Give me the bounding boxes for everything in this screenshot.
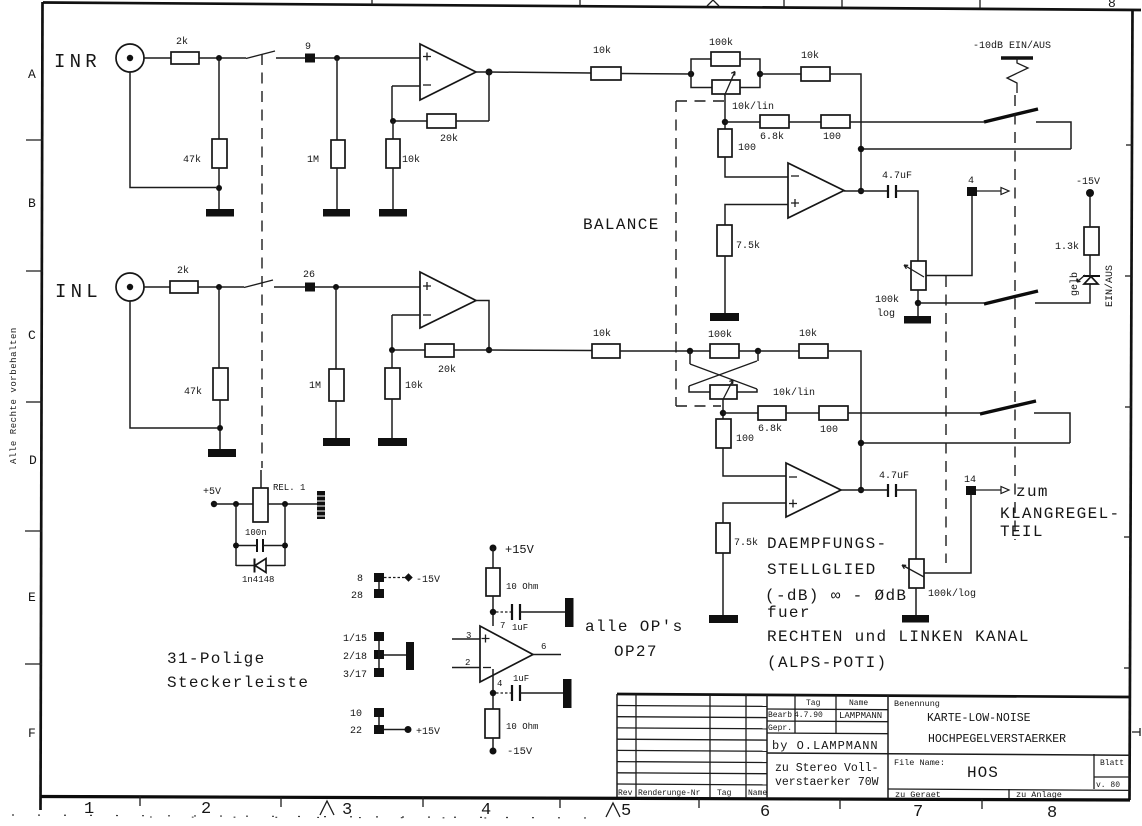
wire mute contact to LED	[1035, 284, 1090, 303]
svg-text:100k: 100k	[708, 329, 732, 341]
label Blatt	[1100, 759, 1124, 768]
resistor 2k (INR)	[171, 52, 199, 64]
resistor 2k (INL)	[170, 281, 198, 293]
svg-text:6.8k: 6.8k	[760, 131, 784, 143]
switch blade (INL input)	[244, 280, 273, 288]
ground (U3 10k)	[378, 438, 407, 446]
svg-text:20k: 20k	[440, 133, 458, 145]
wire pot right bracket	[737, 389, 757, 392]
Blatt box divider	[1094, 776, 1130, 778]
value label 47k	[183, 154, 201, 166]
label +15V (OP27 supply)	[505, 543, 535, 557]
bottom margin caret 5	[606, 803, 620, 817]
svg-text:10k/lin: 10k/lin	[773, 387, 815, 399]
wiper arrow (R volume)	[904, 265, 924, 277]
value label 20k	[440, 133, 458, 145]
svg-text:8: 8	[1047, 804, 1057, 823]
title block outer top line	[617, 694, 1130, 697]
value label 2k	[176, 36, 188, 48]
svg-text:+15V: +15V	[416, 727, 440, 738]
svg-text:6: 6	[541, 642, 546, 652]
bottom margin tick x423	[422, 797, 424, 807]
wire pin 10-22 link	[378, 717, 380, 725]
value label 10k	[405, 380, 423, 392]
wire +15V to 10 Ohm	[492, 548, 494, 568]
wire 10k to bus corner	[828, 351, 861, 490]
resistor 20k (U3 feedback)	[425, 344, 454, 357]
bottom margin number 1	[84, 800, 94, 819]
label File Name:	[894, 758, 945, 768]
wire junction down to 47k	[218, 58, 220, 139]
op-amp U3 (INL input stage)	[420, 272, 476, 328]
bottom margin tick x982	[981, 799, 983, 809]
terminal -15V (OP27)	[490, 748, 497, 755]
wire mute row (R)	[918, 302, 984, 304]
bottom margin tick x140	[139, 796, 141, 806]
title block vertical x636	[635, 695, 637, 798]
svg-text:3: 3	[466, 631, 471, 641]
wire 10k to balance network	[621, 73, 691, 76]
left margin copyright text (rotated)	[9, 327, 19, 464]
project line zu Stereo Voll-	[775, 762, 879, 775]
pin label 4	[968, 176, 974, 187]
file name HOS	[967, 764, 999, 782]
svg-text:100: 100	[820, 425, 838, 436]
left margin row tick A/B	[26, 139, 43, 141]
wire pin 8 to -15V	[384, 577, 405, 579]
switch actuator bar	[1001, 56, 1033, 59]
wire 2k to switch	[199, 57, 246, 59]
title block vertical x767 (revision/middle divider)	[766, 695, 768, 798]
middle header Tag	[806, 699, 821, 708]
wire noninverting input to 7.5k	[723, 503, 786, 523]
revision table header Renderunge-Nr	[638, 789, 701, 798]
label +15V	[416, 727, 440, 738]
wire 10 Ohm to pin 7	[492, 596, 494, 626]
label -10dB EIN/AUS	[973, 40, 1051, 52]
middle header row line y709	[767, 708, 888, 711]
wire snubber right vertical	[284, 504, 286, 566]
pin label 8	[357, 574, 363, 585]
resistor 100 (wiper shunt R)	[718, 129, 732, 157]
wire jack to 2k	[144, 57, 171, 59]
node junction feedback/10k	[389, 347, 395, 353]
node junction bus/cap	[858, 188, 864, 194]
value label 47k	[184, 386, 202, 398]
switch blade (L channel mute)	[980, 401, 1036, 414]
bottom margin caret 3	[320, 801, 334, 815]
wire jack shield return	[130, 301, 217, 428]
resistor 6.8k (L channel)	[758, 406, 786, 420]
svg-text:1uF: 1uF	[513, 674, 529, 684]
wire pads 1/15-3/17 link	[378, 641, 380, 668]
svg-text:Gepr.: Gepr.	[768, 724, 792, 733]
right section label Benennung	[894, 699, 940, 709]
value label 100	[736, 434, 754, 445]
label STELLGLIED	[767, 561, 877, 579]
value label 1M	[307, 155, 319, 166]
wire 6.8k to 100	[789, 121, 821, 123]
pin label 28	[351, 591, 363, 602]
value label 10k/lin	[773, 387, 815, 399]
pin label 9	[305, 42, 311, 53]
value label log	[877, 308, 895, 320]
capacitor 100n	[236, 539, 285, 552]
svg-text:10k: 10k	[405, 380, 423, 392]
wire cap to volume pot	[896, 490, 916, 559]
bottom strip divider x1009	[1008, 789, 1010, 799]
pin label 14	[964, 475, 976, 486]
value label 7.5k	[734, 537, 758, 549]
svg-text:F: F	[28, 726, 36, 741]
left margin row tick B/C	[26, 270, 43, 272]
wire 1M to ground	[335, 401, 337, 438]
pin pad 28	[374, 589, 384, 598]
pin pad 9	[305, 54, 315, 63]
resistor 100 (L channel series)	[819, 406, 848, 420]
svg-text:2: 2	[465, 658, 470, 668]
middle cell Gepr.	[768, 724, 792, 733]
op-amp U5 (OP27 pinout detail)	[480, 626, 533, 682]
svg-text:10k: 10k	[402, 154, 420, 166]
switch blade (INR input)	[246, 51, 275, 59]
wire wiper row to node 14	[924, 495, 971, 573]
pin label 1/15	[343, 633, 367, 645]
value label 100	[820, 425, 838, 436]
svg-text:E: E	[28, 590, 36, 605]
svg-text:Renderunge-Nr: Renderunge-Nr	[638, 789, 701, 798]
resistor 10k (series, L channel)	[592, 344, 620, 358]
node junction pin 7	[490, 609, 496, 615]
svg-text:-15V: -15V	[416, 575, 440, 586]
svg-text:100: 100	[823, 132, 841, 143]
wire switch contact to loop	[1036, 122, 1071, 149]
terminal +15V (pin 22)	[405, 726, 412, 733]
frame bottom border	[41, 797, 1130, 801]
label +15V	[1076, 177, 1100, 188]
balance gang chain line (bottom)	[676, 405, 721, 407]
svg-text:OP27: OP27	[614, 643, 658, 661]
svg-text:STELLGLIED: STELLGLIED	[767, 561, 877, 579]
wire 7.5k to ground	[724, 256, 726, 313]
resistor 10k (U1 gain set)	[386, 139, 400, 168]
common bar (analog ground)	[406, 642, 414, 670]
wire pin 4 down	[492, 669, 494, 713]
label REL. 1	[273, 483, 305, 493]
wire 100k to right node	[739, 350, 758, 352]
pin label 2/18	[343, 651, 367, 663]
resistor 10k (U3 gain set)	[385, 368, 400, 399]
resistor 100 (wiper shunt L)	[716, 419, 731, 448]
bottom margin number 6	[760, 803, 770, 822]
op-amp U1 (INR input stage)	[420, 44, 476, 100]
top margin tick x980	[979, 0, 981, 8]
terminal -15V (pin 8)	[404, 573, 412, 581]
svg-text:INL: INL	[55, 281, 102, 303]
capacitor 1uF (V- bypass)	[496, 685, 564, 701]
svg-text:9: 9	[305, 42, 311, 53]
ground bar (V+ bypass)	[565, 598, 574, 627]
pin label 6	[541, 642, 546, 652]
svg-text:1uF: 1uF	[512, 623, 528, 633]
svg-text:10k: 10k	[593, 328, 611, 340]
resistor 10k (L channel output)	[799, 344, 828, 358]
svg-text:10k: 10k	[593, 45, 611, 57]
wire 20k to feedback node	[392, 120, 427, 122]
label +5V	[203, 487, 221, 498]
value label 7.5k	[736, 240, 760, 252]
svg-text:4: 4	[968, 176, 974, 187]
value label 100n	[245, 528, 267, 538]
wire jack to 2k	[144, 286, 170, 288]
svg-text:KLANGREGEL-: KLANGREGEL-	[1000, 505, 1120, 523]
left margin letter B	[28, 196, 36, 211]
left margin row tick E/F	[25, 663, 42, 665]
wire switch contact to loop	[1034, 413, 1070, 443]
value label 100	[738, 143, 756, 154]
node junction 47k/return	[216, 185, 222, 191]
middle vertical x795	[794, 695, 796, 733]
left margin row tick C/D	[26, 401, 42, 403]
middle header row line y721	[767, 720, 888, 723]
pin pad 14	[966, 486, 976, 495]
resistor 47k (INL)	[213, 368, 228, 400]
svg-text:6: 6	[760, 803, 770, 822]
pin label 22	[350, 726, 362, 737]
svg-text:100k: 100k	[709, 37, 733, 49]
value label 1uF	[513, 674, 529, 684]
potentiometer 10k/lin (balance R)	[712, 80, 740, 94]
value label 100	[823, 132, 841, 143]
resistor 100k (balance L)	[710, 344, 739, 358]
bottom margin number 2	[201, 800, 211, 819]
svg-text:1/15: 1/15	[343, 633, 367, 645]
bottom margin tick x560	[559, 798, 561, 808]
svg-text:4.7uF: 4.7uF	[882, 171, 912, 182]
value label 1uF	[512, 623, 528, 633]
wire 10k to ground	[391, 399, 393, 438]
svg-text:D: D	[29, 453, 37, 468]
svg-text:RECHTEN und LINKEN KANAL: RECHTEN und LINKEN KANAL	[767, 628, 1030, 646]
right section title HOCHPEGELVERSTAERKER	[928, 733, 1066, 746]
wire 1M to ground	[336, 168, 338, 209]
wire pin 6 output	[533, 654, 561, 656]
wire inverting input U1	[392, 85, 420, 87]
svg-text:INR: INR	[54, 51, 101, 73]
wire wiper down to tap	[722, 399, 724, 419]
wire 100 to mute switch row	[848, 412, 980, 414]
label (ALPS-POTI)	[767, 654, 887, 672]
svg-text:26: 26	[303, 270, 315, 281]
value label 6.8k	[758, 423, 782, 435]
frame top border	[43, 3, 1141, 11]
wire U1 output down to 20k	[476, 72, 489, 121]
svg-text:Rev: Rev	[618, 789, 633, 798]
svg-text:10k: 10k	[801, 50, 819, 62]
svg-text:1n4148: 1n4148	[242, 575, 274, 585]
resistor 10k (R channel output)	[801, 67, 830, 81]
title block left edge	[616, 694, 618, 797]
wire pin 2 input	[452, 667, 480, 669]
wire wiper down	[724, 95, 726, 129]
svg-text:7.5k: 7.5k	[734, 537, 758, 549]
value label 1n4148	[242, 575, 274, 585]
connector INL (RCA jack)	[116, 273, 144, 301]
bottom margin tick x840	[839, 799, 841, 809]
right margin row tick C/D	[1125, 406, 1132, 408]
svg-text:HOCHPEGELVERSTAERKER: HOCHPEGELVERSTAERKER	[928, 733, 1066, 746]
label zu Anlage	[1016, 790, 1062, 800]
svg-text:28: 28	[351, 591, 363, 602]
label zum	[1016, 483, 1049, 501]
wire coil to contact block	[268, 503, 318, 505]
left margin letter C	[28, 328, 36, 343]
node junction U1 output	[486, 69, 493, 76]
svg-text:-15V: -15V	[507, 746, 533, 758]
label EIN/AUS (rotated)	[1104, 265, 1116, 307]
left margin letter E	[28, 590, 36, 605]
resistor 10 Ohm (V- filter)	[485, 709, 500, 738]
svg-text:v. 80: v. 80	[1096, 781, 1120, 790]
node junction balance left (L)	[687, 348, 693, 354]
value label 100k	[708, 329, 732, 341]
wire 100 to inverting input	[725, 157, 788, 177]
scan noise trail below bottom margin	[12, 815, 600, 818]
pin pad 22	[374, 725, 384, 734]
resistor 1.3k	[1084, 227, 1099, 255]
author line by O.LAMPMANN	[772, 739, 879, 753]
svg-text:gelb: gelb	[1069, 272, 1081, 296]
wire cross-couple right drop	[757, 351, 759, 361]
svg-text:10 Ohm: 10 Ohm	[506, 582, 538, 592]
svg-text:KARTE-LOW-NOISE: KARTE-LOW-NOISE	[927, 712, 1031, 725]
op-amp U2 (R channel balance stage)	[788, 163, 844, 218]
resistor 1M (INL)	[329, 369, 344, 401]
middle header Name	[849, 699, 868, 708]
wire snubber left vertical	[235, 504, 237, 566]
resistor 10 Ohm (V+ filter)	[486, 568, 500, 596]
wire wiper row to node 4	[926, 196, 972, 276]
svg-text:DAEMPFUNGS-: DAEMPFUNGS-	[767, 535, 887, 553]
svg-text:by O.LAMPMANN: by O.LAMPMANN	[772, 739, 879, 753]
svg-text:100k: 100k	[875, 294, 899, 306]
pin label 26	[303, 270, 315, 281]
pin pad 10	[374, 708, 384, 717]
wire balance right bracket	[740, 59, 760, 88]
right section title KARTE-LOW-NOISE	[927, 712, 1031, 725]
label KLANGREGEL-	[1000, 505, 1120, 523]
svg-text:100k/log: 100k/log	[928, 588, 976, 600]
svg-text:6.8k: 6.8k	[758, 423, 782, 435]
wire switch contact to pin 26	[274, 286, 305, 288]
label INL	[55, 281, 102, 303]
label fuer	[767, 604, 811, 622]
node junction pin 4	[490, 690, 496, 696]
bottom margin number 7	[913, 803, 923, 822]
svg-text:22: 22	[350, 726, 362, 737]
capacitor 1uF (V+ bypass)	[496, 604, 565, 620]
top margin caret	[707, 0, 719, 6]
node junction balance right	[757, 71, 763, 77]
wire junction down to 47k	[218, 287, 220, 368]
diode 1n4148	[236, 559, 285, 573]
ground (U1 10k)	[379, 209, 407, 217]
svg-text:EIN/AUS: EIN/AUS	[1104, 265, 1116, 307]
right margin row tick E/F	[1124, 667, 1131, 669]
node junction loop/bus	[858, 440, 864, 446]
wire noninverting input to 7.5k	[725, 205, 788, 226]
LED gelb (EIN/AUS indicator)	[1077, 275, 1100, 284]
node junction pot/mute	[915, 300, 921, 306]
node junction balance right (L)	[755, 348, 761, 354]
wire +15V to 1.3k	[1089, 193, 1091, 227]
bottom margin tick x699	[698, 798, 700, 808]
svg-text:1: 1	[84, 800, 94, 819]
Blatt box vertical	[1093, 754, 1095, 789]
wire U3 output down	[476, 301, 489, 351]
resistor 1M (INR)	[331, 140, 345, 168]
value label 100k	[709, 37, 733, 49]
svg-text:Blatt: Blatt	[1100, 759, 1124, 768]
balance gang chain line (vertical)	[675, 101, 677, 406]
svg-text:31-Polige: 31-Polige	[167, 650, 266, 668]
wire balance right to output 10k	[760, 73, 801, 75]
svg-text:8: 8	[1108, 0, 1116, 11]
middle header row line y733	[767, 732, 888, 735]
value label 10k	[801, 50, 819, 62]
node junction snubber right	[282, 501, 288, 507]
ground (INR 47k)	[206, 209, 234, 217]
svg-text:fuer: fuer	[767, 604, 811, 622]
wire 100 to mute switch row	[850, 121, 984, 123]
wire U1 output to series 10k	[489, 72, 591, 73]
wire 47k to ground	[218, 168, 220, 209]
svg-text:Name: Name	[849, 699, 868, 708]
project line verstaerker 70W	[775, 776, 879, 789]
switch actuator spring	[1007, 58, 1028, 93]
svg-text:3/17: 3/17	[343, 669, 367, 681]
wire 10k to ground	[392, 168, 394, 209]
node junction U3 output	[486, 347, 492, 353]
ground (INL 1M)	[323, 438, 350, 446]
svg-text:HOS: HOS	[967, 764, 999, 782]
op-amp U4 (L channel balance stage)	[786, 463, 841, 517]
svg-text:Tag: Tag	[717, 789, 732, 798]
svg-text:B: B	[28, 196, 36, 211]
left margin row tick D/E	[25, 530, 42, 532]
value label 10k	[799, 328, 817, 340]
wire 7.5k to ground	[722, 553, 724, 615]
top margin tick x372	[371, 0, 373, 5]
svg-text:47k: 47k	[183, 154, 201, 166]
revision table header Tag	[717, 789, 732, 798]
wire feedback node to 10k	[392, 121, 394, 139]
wire 100 to inverting input	[723, 448, 786, 476]
value label 10 Ohm	[506, 582, 538, 592]
node junction at 47k tap (INR)	[216, 55, 222, 61]
svg-text:alle OP's: alle OP's	[585, 618, 684, 636]
resistor 7.5k (L channel)	[716, 523, 730, 553]
svg-text:7: 7	[913, 803, 923, 822]
node junction wiper tap	[722, 119, 728, 125]
right margin row tick A/B	[1126, 144, 1133, 146]
wire wiper tap to 6.8k	[723, 412, 758, 414]
wire jack shield return	[130, 72, 216, 188]
off-card arrow (node 4)	[977, 188, 1009, 195]
wire U2 output to cap	[844, 190, 887, 192]
label INR	[54, 51, 101, 73]
svg-text:+15V: +15V	[505, 543, 535, 557]
